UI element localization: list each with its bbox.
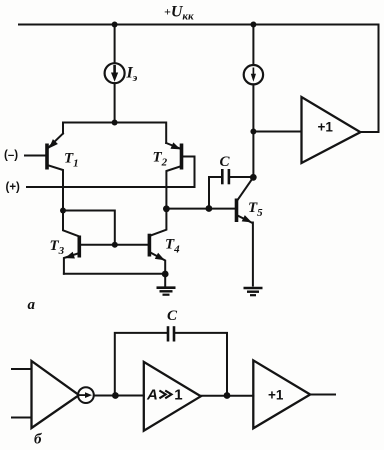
- svg-text:б: б: [34, 432, 42, 448]
- svg-text:C: C: [220, 154, 231, 170]
- svg-text:а: а: [28, 297, 36, 313]
- svg-text:+1: +1: [318, 120, 334, 135]
- svg-text:1: 1: [174, 386, 182, 403]
- svg-text:(+): (+): [6, 182, 21, 194]
- svg-text:+1: +1: [268, 388, 284, 403]
- svg-text:(–): (–): [4, 150, 18, 162]
- svg-text:A: A: [146, 386, 158, 403]
- svg-text:C: C: [167, 308, 178, 324]
